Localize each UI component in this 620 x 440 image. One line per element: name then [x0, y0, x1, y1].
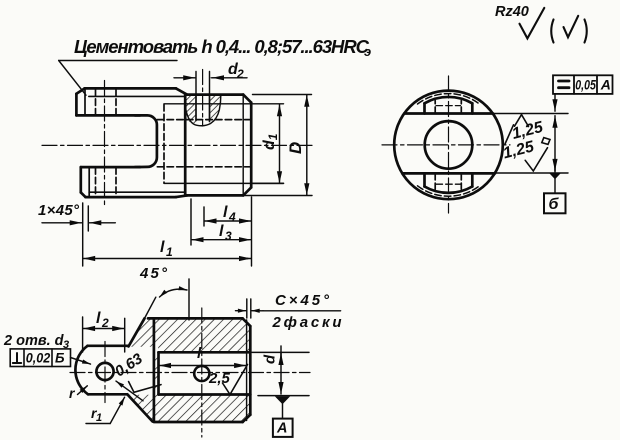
l4 dimension	[205, 220, 211, 222]
prong top edge (plan)	[88, 344, 129, 347]
carburize note underline	[59, 60, 177, 62]
hole bottom extension	[258, 395, 309, 397]
svg-text:l: l	[223, 204, 228, 221]
45 degree arc	[160, 289, 188, 297]
svg-text:3: 3	[63, 339, 69, 351]
span line with arrows	[554, 116, 556, 121]
svg-text:1×45°: 1×45°	[38, 202, 80, 219]
prong side edge left bottom	[423, 173, 426, 186]
chamfer circle dashed arc top	[418, 94, 480, 104]
chamfer edge line (plan)	[246, 320, 248, 421]
svg-text:2 отв. d: 2 отв. d	[3, 333, 65, 349]
d2 circle in section	[194, 366, 209, 381]
fork bottom prong chamfer edge	[88, 167, 90, 197]
body bottom edge	[185, 194, 243, 197]
svg-text:3: 3	[225, 229, 232, 243]
body top edge	[185, 93, 243, 96]
fork top prong chamfer edge	[84, 89, 86, 115]
d3 hidden line left top	[434, 101, 436, 114]
parallelism symbol	[559, 81, 570, 88]
d2 vertical centerline (plan)	[201, 308, 203, 437]
neck transition bottom	[176, 195, 187, 197]
prong taper bottom	[127, 394, 152, 421]
fork bottom prong left face	[79, 167, 82, 192]
prong outer arc bottom	[425, 187, 473, 193]
l4 extension left	[203, 207, 205, 226]
svg-text:2,5: 2,5	[208, 370, 231, 387]
d3 hidden line right bottom	[460, 173, 462, 189]
svg-text:э: э	[364, 44, 371, 59]
leader shelf 2 фаски	[263, 310, 341, 312]
l3 extension left	[190, 199, 192, 245]
d upper arrowhead	[280, 353, 282, 358]
local section wavy boundary	[186, 96, 221, 126]
d2 hole right wall	[209, 95, 211, 122]
svg-text:1: 1	[96, 412, 102, 424]
svg-text:А: А	[600, 77, 611, 93]
body chamfer edge line	[242, 95, 244, 195]
svg-text:l: l	[160, 239, 165, 256]
taper extension line	[145, 297, 156, 318]
body right chamfer top	[243, 95, 251, 103]
r leader	[78, 386, 88, 395]
body bottom edge (plan)	[154, 421, 243, 424]
hatch hole end strip	[154, 352, 158, 394]
hole top extension	[252, 351, 309, 353]
chamfer circle dashed arc bottom	[418, 186, 480, 196]
datum box Б	[544, 193, 566, 213]
outer circle D	[394, 91, 503, 200]
datum box A	[273, 419, 293, 437]
0,63 roughness check	[129, 382, 161, 393]
C chamfer extension lines	[246, 299, 248, 318]
svg-text:0,02: 0,02	[26, 351, 51, 366]
D bottom extension line	[243, 195, 312, 197]
d3 hole hidden line left, bottom prong	[95, 168, 97, 197]
d dimension line	[280, 346, 282, 394]
frame leader arrow	[554, 94, 556, 111]
chord extension bottom	[495, 172, 568, 174]
vertical extension for 45	[188, 279, 190, 320]
local section hatch right	[210, 95, 221, 124]
svg-text:d1: d1	[261, 133, 280, 150]
d2 hole left wall	[195, 95, 197, 121]
end view vertical centerline	[448, 76, 450, 213]
Rz40 check	[520, 8, 545, 39]
datum triangle A	[275, 396, 290, 404]
svg-text:Б: Б	[55, 351, 65, 366]
fork flat edge bottom	[89, 191, 184, 193]
body right chamfer bottom	[243, 187, 251, 195]
body right chamfer bottom (plan)	[243, 415, 251, 422]
fork bottom prong inner face	[81, 166, 140, 169]
svg-text:2фаски: 2фаски	[272, 314, 342, 331]
0,63 leader	[116, 381, 143, 401]
axial hole bottom wall line	[159, 393, 251, 396]
svg-text:0,05: 0,05	[575, 77, 596, 93]
datum stem	[554, 179, 556, 194]
svg-text:d: d	[262, 354, 279, 364]
fork top-left chamfer diagonal	[76, 88, 84, 93]
axial hole top wall line	[159, 351, 251, 354]
d3 hidden line right top	[460, 101, 462, 114]
d2 extension lines	[195, 72, 197, 95]
d2 dimension arrows	[174, 77, 195, 79]
body top edge (plan)	[148, 317, 243, 320]
l1 extension left	[82, 203, 84, 266]
fork top prong inner face	[76, 114, 140, 117]
prong bottom edge (plan)	[88, 393, 127, 396]
perpendicularity symbol	[13, 353, 21, 363]
paren right	[585, 20, 587, 43]
svg-text:Цементовать h 0,4... 0,8;57...: Цементовать h 0,4... 0,8;57...63HRC	[74, 36, 370, 57]
svg-text:l: l	[219, 223, 224, 240]
d3 hole circle	[96, 363, 113, 380]
d1 dimension line	[279, 104, 281, 110]
body right chamfer top (plan)	[243, 318, 251, 326]
1x45 chamfer dimension	[42, 222, 82, 224]
C dimension arrows	[236, 310, 247, 312]
chord extension top	[493, 113, 568, 115]
roughness tail top	[505, 125, 514, 144]
body thread line bottom	[164, 182, 284, 184]
d3 vertical centerline (plan)	[104, 342, 106, 403]
body right face	[250, 103, 253, 188]
axial hole bottom face	[157, 352, 160, 394]
small check	[564, 16, 579, 37]
d3 hole hidden line right, bottom prong	[115, 168, 117, 197]
svg-text:Rz40: Rz40	[495, 4, 529, 20]
svg-text:1: 1	[166, 245, 173, 259]
d2 hole axis vertical	[202, 70, 204, 127]
horizontal centerline main view	[42, 144, 312, 146]
prong taper 45 top	[129, 318, 145, 346]
fork bottom-left chamfer diagonal	[81, 192, 86, 197]
l dimension	[159, 365, 165, 367]
top chord slot face	[404, 112, 493, 115]
D dimension line	[306, 95, 308, 101]
paren left	[551, 20, 553, 43]
axial hole hidden line top	[157, 119, 251, 121]
d3 hole hidden line right, top prong	[115, 89, 117, 115]
perpendicularity frame	[10, 349, 70, 367]
prong side edge left top	[423, 103, 426, 113]
l3 dimension	[192, 239, 198, 241]
fork bottom prong outer edge	[86, 196, 177, 199]
datum A stem	[282, 404, 284, 419]
body right face (plan)	[249, 326, 252, 415]
svg-text:D: D	[286, 142, 305, 154]
prong outer arc top	[425, 97, 473, 103]
section view axis horizontal	[70, 372, 310, 374]
bottom chord slot face	[402, 172, 495, 175]
svg-text:2: 2	[236, 67, 244, 81]
end view horizontal centerline	[382, 144, 510, 146]
svg-text:r: r	[69, 385, 76, 401]
datum triangle Б	[549, 173, 560, 179]
svg-text:А: А	[276, 421, 287, 437]
fork top prong left face	[75, 94, 78, 116]
inner circle hole	[425, 121, 473, 169]
body thread line top	[164, 103, 284, 105]
prong side edge right top	[471, 103, 474, 113]
d3 holes axis vertical	[104, 81, 106, 206]
svg-text:l: l	[96, 310, 101, 327]
hatch top wall	[129, 319, 250, 352]
hole thread end hidden line	[163, 105, 165, 184]
svg-text:45°: 45°	[139, 265, 168, 282]
fork top prong outer edge	[85, 87, 177, 90]
axial hole hidden line bottom	[157, 166, 251, 168]
d3 hole hidden line left, top prong	[95, 89, 97, 115]
roughness check top surface	[515, 115, 529, 127]
slot floor rounded end	[135, 115, 157, 167]
l right extension	[251, 197, 253, 266]
l1 dimension	[83, 258, 89, 260]
svg-text:0,63: 0,63	[112, 350, 146, 381]
body left face (plan)	[153, 318, 156, 421]
parallelism frame	[553, 75, 613, 94]
D top extension line	[253, 94, 312, 96]
r1 leader	[110, 397, 124, 423]
r1 shelf	[86, 423, 110, 425]
hidden chord top	[436, 105, 461, 107]
roughness check bottom surface	[525, 148, 547, 171]
d1 bottom extension	[252, 182, 284, 184]
d3 hidden line left bottom	[434, 173, 436, 189]
prong side edge right bottom	[471, 173, 474, 186]
carburize note leader	[59, 61, 86, 96]
hatch bottom wall	[128, 395, 250, 422]
neck transition top	[176, 88, 187, 94]
body left face	[184, 95, 187, 196]
small flag	[542, 138, 550, 145]
hidden chord bottom	[436, 183, 461, 185]
svg-text:б: б	[549, 196, 560, 213]
prong tip arc	[75, 346, 88, 395]
leader 2otv d3	[71, 358, 91, 365]
fork flat edge top	[89, 95, 185, 97]
2,5 roughness check	[223, 365, 248, 395]
svg-text:4: 4	[228, 210, 236, 224]
svg-text:С×45°: С×45°	[275, 292, 330, 309]
local section hatch left	[186, 95, 196, 124]
l2 dimension	[83, 317, 125, 352]
